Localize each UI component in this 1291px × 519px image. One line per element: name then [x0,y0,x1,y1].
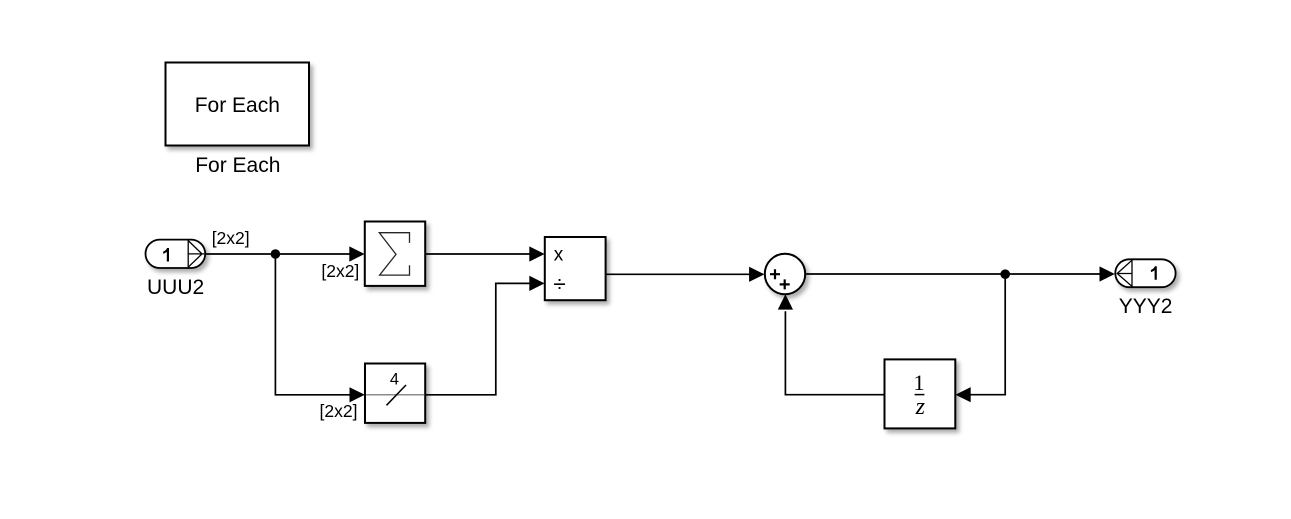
arrowhead into outport [1100,266,1115,281]
Sum circle plus sign 2 [780,279,790,289]
Divide block [545,237,606,300]
svg-text:For Each: For Each [195,94,280,117]
wire Divide to Sum circle [606,273,750,275]
svg-text:÷: ÷ [553,271,565,296]
Unit Delay fraction bar [915,394,925,396]
arrowhead into Divide input 2 [529,276,544,291]
svg-text:For Each: For Each [195,154,280,177]
arrowhead into Unit Delay (pointing left) [955,387,970,402]
wire Width block to Divide input 2 [425,283,530,394]
inport UUU2 port number 1 [163,248,169,262]
For Each block [166,63,310,146]
arrowhead into Sum circle [749,267,764,282]
inport UUU2 chevron icon [188,241,204,268]
wire Sum of Elements to Divide input 1 [425,253,530,255]
svg-text:z: z [915,394,926,420]
Sum of Elements sigma icon [379,233,409,275]
arrowhead into Sum of Elements [349,246,364,261]
svg-text:x: x [554,244,564,265]
Sum circle [765,254,805,294]
wire inport to Sum of Elements [205,253,350,255]
Sum of Elements block [365,222,425,286]
inport UUU2 divider line [187,240,189,268]
Sum circle plus sign 1 [770,269,780,279]
outport YYY2 chevron icon [1117,260,1132,286]
arrowhead into Divide input 1 [529,246,544,261]
junction dot [271,249,281,259]
wire Sum circle to outport [805,273,1100,275]
Width block slash [387,385,407,405]
outport YYY2 port number 1 [1151,266,1157,280]
Unit Delay block [885,359,956,428]
svg-text:1: 1 [913,370,924,395]
svg-text:YYY2: YYY2 [1119,295,1173,318]
Width block [365,364,425,423]
wire feedback down from junction to Unit Delay input [970,274,1005,395]
wire Unit Delay output to Sum circle bottom [785,311,884,395]
junction dot on output wire [1000,269,1010,279]
wire branch down from junction to Width block [275,254,350,395]
outport YYY2 divider line [1131,260,1133,288]
svg-text:4: 4 [390,370,399,388]
arrowhead into Width block [350,387,365,402]
inport UUU2 [146,240,206,268]
svg-text:[2x2]: [2x2] [212,228,250,248]
svg-text:[2x2]: [2x2] [320,401,358,421]
arrowhead into Sum circle bottom (pointing up) [778,294,793,309]
svg-text:UUU2: UUU2 [147,276,204,299]
svg-text:[2x2]: [2x2] [321,261,359,281]
outport YYY2 [1115,259,1175,287]
Width block middle gray line [366,394,424,396]
